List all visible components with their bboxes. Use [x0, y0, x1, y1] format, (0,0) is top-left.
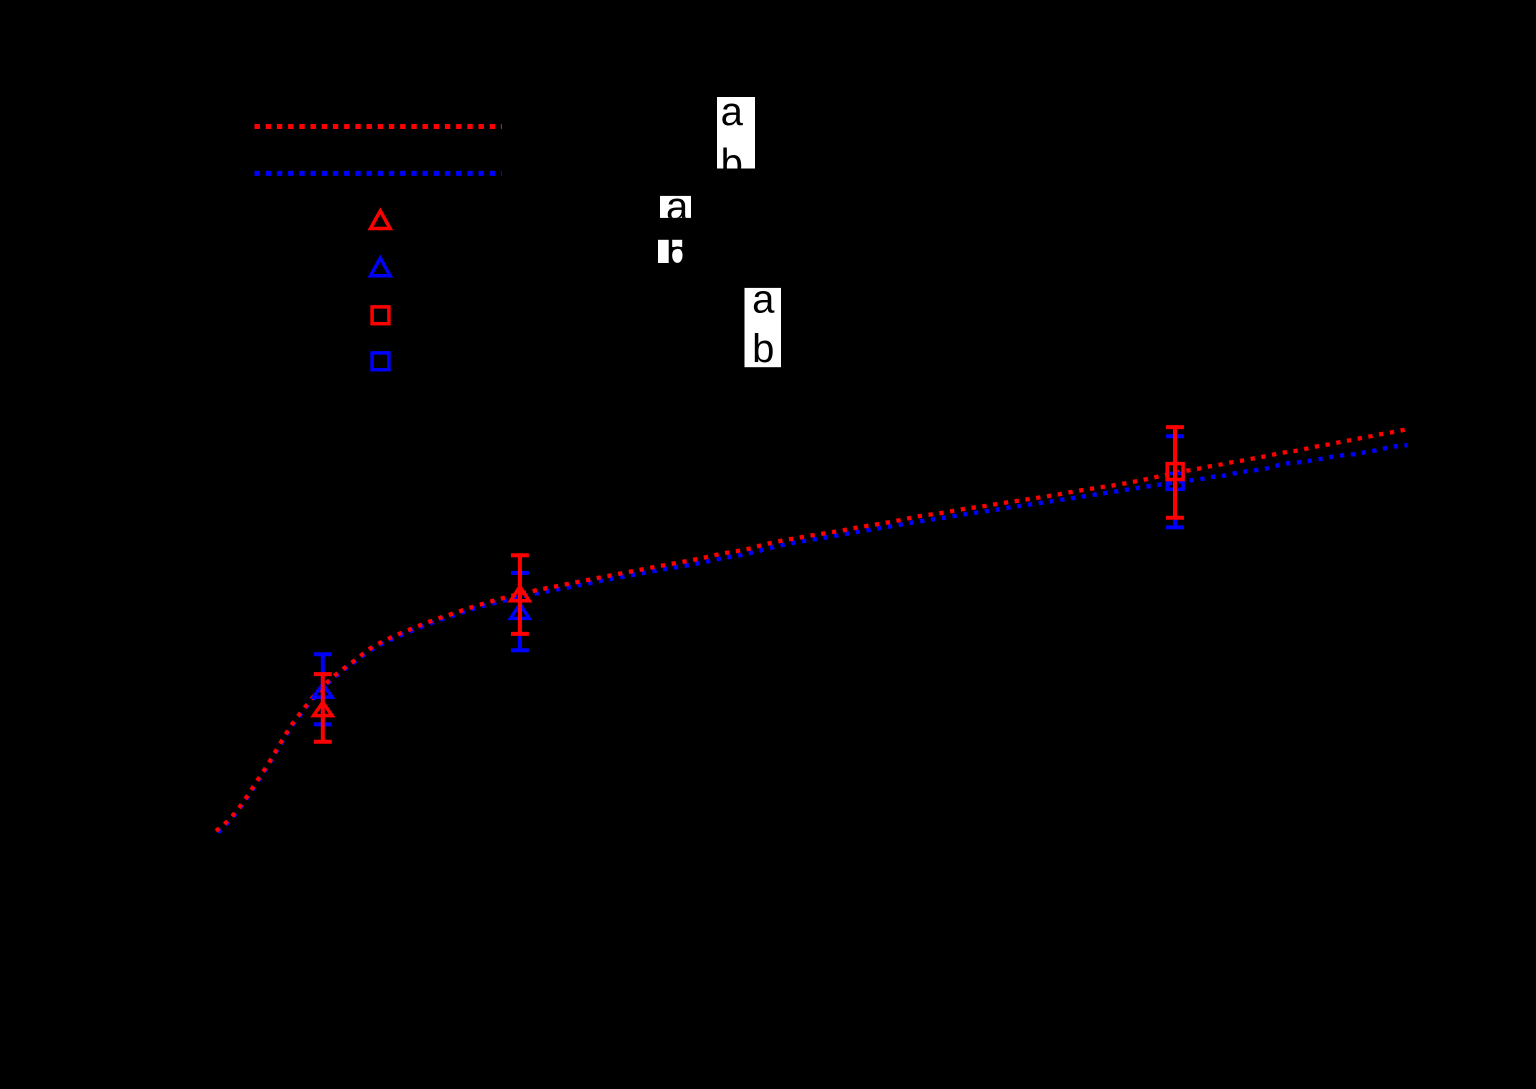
error bar group1 blue	[314, 654, 332, 724]
legend marker blue triangle	[371, 258, 391, 276]
white label box 2 with letter a	[660, 185, 691, 229]
error bar group2 red	[511, 555, 529, 634]
white label box 3 remnant: small white rect	[658, 240, 669, 263]
legend marker red square	[372, 307, 389, 324]
data point group3 red square	[1167, 464, 1183, 480]
data point group1 blue triangle	[314, 684, 333, 697]
error bar group3 blue	[1166, 436, 1184, 527]
white label box 3 remnant: partial letter b (white pieces with black bowl-top arc)	[672, 240, 682, 263]
legend line red dotted (fitted curve, red series)	[255, 124, 503, 129]
data point group3 blue square	[1167, 473, 1183, 489]
error bar group3 red	[1166, 427, 1184, 518]
error bar group1 red	[314, 674, 332, 742]
svg-text:a: a	[752, 278, 775, 322]
data point group2 blue triangle	[511, 604, 530, 618]
legend marker blue square	[372, 353, 389, 370]
data point group1 red triangle	[314, 702, 333, 715]
legend line blue dotted (fitted curve, blue series)	[255, 171, 503, 176]
data point group2 red triangle	[511, 587, 530, 601]
error bar group2 blue	[511, 573, 529, 650]
svg-text:b: b	[752, 327, 774, 371]
white label box 1 with letters a/b (b clipped)	[717, 90, 755, 185]
white label box 4 with letters a/b	[745, 278, 782, 371]
red dotted fit curve	[216, 430, 1405, 831]
blue dotted fit curve	[218, 445, 1408, 832]
legend marker red triangle	[371, 211, 391, 229]
